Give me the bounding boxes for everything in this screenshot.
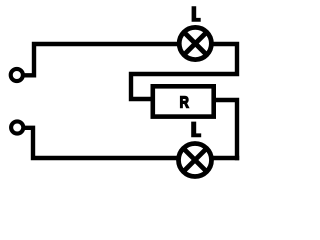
- svg-text:R: R: [180, 94, 190, 112]
